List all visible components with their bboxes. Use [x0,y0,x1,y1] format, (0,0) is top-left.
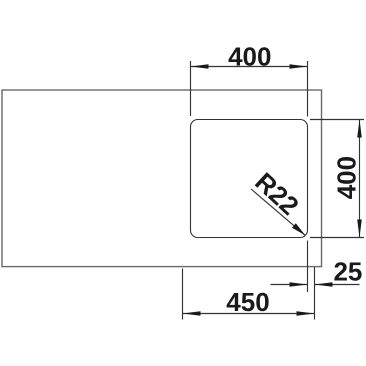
dimension 25: arrowhead pointing left [315,282,333,287]
dimension 400 top: arrowhead right [290,64,308,69]
dimension 400 top: extension line left [190,61,192,116]
dimension 25: dimension line left tail [271,284,308,286]
dimension 400 right: extension line top [310,119,364,121]
svg-text:400: 400 [228,41,271,71]
dimension 450: extension line left [182,269,184,320]
radius R22 leader line [251,189,305,235]
svg-text:400: 400 [332,156,362,199]
dimension 400 top: arrowhead left [191,64,209,69]
dimension 400 right: arrowhead down [357,220,362,238]
dimension 400 right: extension line bottom [310,237,364,239]
dimension 25: extension line from bowl edge [307,241,309,293]
svg-text:R22: R22 [249,166,304,220]
dimension 400 right: dimension line [359,120,361,238]
dimension 450: arrowhead right [297,311,315,316]
bowl (400x400 R22 rounded square) [191,120,308,238]
svg-text:450: 450 [226,287,269,317]
dimension 400 top: extension line right [307,61,309,117]
radius R22 arrowhead [292,223,305,235]
svg-text:25: 25 [333,257,362,287]
dimension 25: dimension line right tail [315,284,360,286]
dimension 450: arrowhead left [183,311,201,316]
countertop outline [2,90,322,267]
dimension 25: arrowhead pointing right [290,282,308,287]
dimension 400 right: arrowhead up [357,120,362,138]
dimension 400 top: dimension line [191,66,308,68]
dimension 25: extension line right [314,267,316,320]
dimension 450: dimension line [183,313,315,315]
